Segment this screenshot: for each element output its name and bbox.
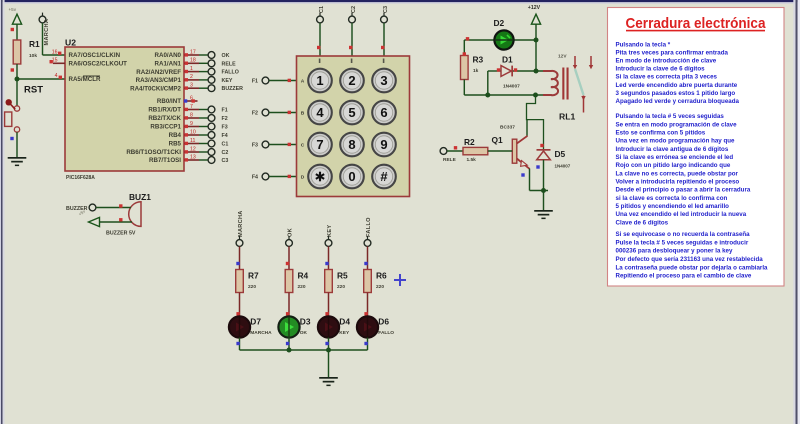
svg-text:RA5/MCLR: RA5/MCLR xyxy=(69,76,101,83)
svg-text:Introducir la clave de 6 dígit: Introducir la clave de 6 dígitos xyxy=(616,66,706,73)
svg-text:000236 para desbloquear y pone: 000236 para desbloquear y poner la key xyxy=(616,248,733,255)
svg-text:8: 8 xyxy=(190,112,193,118)
svg-text:F1: F1 xyxy=(222,108,228,114)
svg-text:F4: F4 xyxy=(252,175,258,181)
svg-text:C3: C3 xyxy=(222,158,229,164)
svg-text:8: 8 xyxy=(348,137,355,152)
svg-text:9: 9 xyxy=(190,121,193,127)
svg-text:La contraseña puede obstar por: La contraseña puede obstar por dejarla o… xyxy=(616,264,769,271)
svg-text:BC337: BC337 xyxy=(500,125,515,131)
svg-text:D5: D5 xyxy=(555,149,566,159)
svg-text:U2: U2 xyxy=(65,38,76,48)
svg-text:5: 5 xyxy=(348,105,355,120)
svg-text:F2: F2 xyxy=(222,116,228,122)
svg-text:17: 17 xyxy=(190,49,196,55)
svg-text:D4: D4 xyxy=(339,317,350,327)
svg-text:FALLO: FALLO xyxy=(378,330,394,336)
svg-text:A: A xyxy=(301,79,305,85)
svg-text:D: D xyxy=(301,175,305,181)
svg-text:La clave no es correcta, puede: La clave no es correcta, puede obstar po… xyxy=(616,170,739,177)
svg-text:RA2/AN2/VREF: RA2/AN2/VREF xyxy=(136,69,181,76)
svg-text:13: 13 xyxy=(190,154,196,160)
svg-text:Apagado led verde y cerradura: Apagado led verde y cerradura bloqueada xyxy=(616,98,740,105)
svg-text:C2: C2 xyxy=(351,6,357,13)
svg-text:7: 7 xyxy=(316,137,323,152)
svg-text:F4: F4 xyxy=(222,133,228,139)
svg-text:+5v: +5v xyxy=(9,7,17,12)
svg-text:Una vez encendido el led intro: Una vez encendido el led introducir la n… xyxy=(616,211,747,218)
svg-text:18: 18 xyxy=(190,58,196,64)
svg-text:10: 10 xyxy=(190,129,196,135)
svg-text:Si la clave es errónea se enci: Si la clave es errónea se enciende el le… xyxy=(616,154,734,161)
svg-text:7: 7 xyxy=(190,104,193,110)
svg-text:RA6/OSC2/CLKOUT: RA6/OSC2/CLKOUT xyxy=(69,60,128,67)
svg-text:Cerradura electrónica: Cerradura electrónica xyxy=(626,16,767,32)
svg-text:R5: R5 xyxy=(337,271,348,281)
svg-text:R7: R7 xyxy=(248,271,259,281)
svg-text:RB1/RX/DT: RB1/RX/DT xyxy=(148,107,181,114)
svg-text:Por defecto que sería 231163 u: Por defecto que sería 231163 una vez res… xyxy=(616,256,764,263)
svg-text:FALLO: FALLO xyxy=(366,217,372,237)
svg-text:OK: OK xyxy=(300,330,308,336)
svg-text:RA7/OSC1/CLKIN: RA7/OSC1/CLKIN xyxy=(69,52,121,59)
svg-text:D2: D2 xyxy=(494,18,505,28)
svg-text:R6: R6 xyxy=(376,271,387,281)
svg-text:si la clave es correcta lo con: si la clave es correcta lo confirma con xyxy=(616,195,728,202)
svg-text:C1: C1 xyxy=(222,142,229,148)
svg-text:Q1: Q1 xyxy=(492,135,504,145)
svg-text:RB4: RB4 xyxy=(169,132,182,139)
svg-text:3 segundos pasados estos 1 pit: 3 segundos pasados estos 1 pitido largo xyxy=(616,90,736,97)
svg-text:1.5k: 1.5k xyxy=(467,157,477,163)
svg-text:220: 220 xyxy=(248,284,256,290)
svg-text:1N4007: 1N4007 xyxy=(555,164,571,169)
svg-text:Led verde encendido abre puert: Led verde encendido abre puerta durante xyxy=(616,82,738,89)
svg-text:KEY: KEY xyxy=(339,330,350,336)
svg-text:9: 9 xyxy=(380,137,387,152)
svg-text:16: 16 xyxy=(52,49,58,55)
svg-text:R3: R3 xyxy=(473,55,484,65)
svg-text:Pulsando la tecla # 5 veces se: Pulsando la tecla # 5 veces seguidas xyxy=(616,113,725,120)
svg-text:C1: C1 xyxy=(319,6,325,13)
svg-text:OK: OK xyxy=(287,228,293,237)
svg-text:Pulsando la tecla *: Pulsando la tecla * xyxy=(616,41,671,48)
svg-text:RA0/AN0: RA0/AN0 xyxy=(155,52,182,59)
svg-text:F3: F3 xyxy=(252,143,258,149)
svg-text:RELE: RELE xyxy=(443,157,457,163)
svg-text:PIC16F628A: PIC16F628A xyxy=(66,175,95,181)
svg-text:0: 0 xyxy=(348,169,355,184)
svg-text:D1: D1 xyxy=(502,55,513,65)
svg-text:6: 6 xyxy=(190,95,193,101)
svg-text:F3: F3 xyxy=(222,125,228,131)
svg-text:RB7/T1OSI: RB7/T1OSI xyxy=(149,157,181,164)
svg-text:2: 2 xyxy=(190,74,193,80)
svg-text:C3: C3 xyxy=(383,6,389,13)
svg-text:10k: 10k xyxy=(29,53,37,59)
svg-text:R2: R2 xyxy=(464,137,475,147)
svg-text:C2: C2 xyxy=(222,150,229,156)
svg-text:Repitiendo el proceso para el: Repitiendo el proceso para el cambio de … xyxy=(616,273,752,280)
svg-text:3: 3 xyxy=(190,83,193,89)
svg-text:RB0/INT: RB0/INT xyxy=(157,98,181,105)
svg-text:Si se equivocase o no recuerda: Si se equivocase o no recuerda la contra… xyxy=(616,231,751,238)
svg-text:RA3/AN3/CMP1: RA3/AN3/CMP1 xyxy=(136,77,182,84)
svg-text:D3: D3 xyxy=(300,317,311,327)
svg-text:KEY: KEY xyxy=(327,225,333,237)
svg-text:1N4007: 1N4007 xyxy=(503,84,520,90)
svg-text:RST: RST xyxy=(24,85,43,96)
svg-text:RA1/AN1: RA1/AN1 xyxy=(155,61,182,68)
svg-text:F2: F2 xyxy=(252,111,258,117)
svg-text:#: # xyxy=(380,169,388,184)
svg-text:Esto se confirma con 5 pitidos: Esto se confirma con 5 pitidos xyxy=(616,129,706,136)
svg-text:2: 2 xyxy=(348,73,355,88)
svg-text:Introducir la clave antigua de: Introducir la clave antigua de 6 dígitos xyxy=(616,146,729,153)
svg-text:4: 4 xyxy=(55,73,58,79)
svg-text:RL1: RL1 xyxy=(559,112,575,122)
svg-text:C: C xyxy=(301,143,305,149)
svg-text:MARCHA: MARCHA xyxy=(250,330,272,336)
svg-text:3: 3 xyxy=(380,73,387,88)
svg-text:Volver a introducirla repitien: Volver a introducirla repitiendo el proc… xyxy=(616,178,740,185)
svg-text:OK: OK xyxy=(222,53,230,59)
svg-text:1k: 1k xyxy=(473,68,479,74)
svg-text:Una vez en modo programación h: Una vez en modo programación hay que xyxy=(616,138,736,145)
svg-text:KEY: KEY xyxy=(222,78,233,84)
svg-text:F1: F1 xyxy=(252,79,258,85)
svg-text:BUZ1: BUZ1 xyxy=(129,192,151,202)
svg-text:FALLO: FALLO xyxy=(222,70,239,76)
svg-text:12V: 12V xyxy=(558,54,567,60)
svg-text:MARCHA: MARCHA xyxy=(44,19,50,46)
svg-text:Desde el principio o pasar a a: Desde el principio o pasar a abrir la ce… xyxy=(616,187,751,194)
svg-text:R1: R1 xyxy=(29,39,40,49)
svg-text:BUZZER: BUZZER xyxy=(222,86,244,92)
svg-text:220: 220 xyxy=(298,284,306,290)
svg-text:4: 4 xyxy=(316,105,324,120)
svg-text:1: 1 xyxy=(190,66,193,72)
svg-text:D7: D7 xyxy=(250,317,261,327)
svg-text:RB6/T1OSO/T1CKI: RB6/T1OSO/T1CKI xyxy=(126,149,181,156)
svg-text:220: 220 xyxy=(376,284,384,290)
svg-text:R4: R4 xyxy=(298,271,309,281)
svg-text:1: 1 xyxy=(316,73,323,88)
svg-text:BUZZER 5V: BUZZER 5V xyxy=(106,231,136,237)
svg-text:RELE: RELE xyxy=(222,61,237,67)
svg-text:RB3/CCP1: RB3/CCP1 xyxy=(150,124,181,131)
svg-text:Se entra en modo programación: Se entra en modo programación de clave xyxy=(616,121,738,128)
svg-text:Pulse la tecla # 5 veces segui: Pulse la tecla # 5 veces seguidas e intr… xyxy=(616,239,749,246)
svg-text:B: B xyxy=(301,111,305,117)
svg-text:5 pitidos y encendiendo el led: 5 pitidos y encendiendo el led amarillo xyxy=(616,203,730,210)
svg-text:Rojo con un pitido largo indic: Rojo con un pitido largo indicando que xyxy=(616,162,731,169)
svg-text:Clave de 6 dígitos: Clave de 6 dígitos xyxy=(616,219,669,226)
svg-text:En modo de introducción de cla: En modo de introducción de clave xyxy=(616,58,717,65)
svg-text:MARCHA: MARCHA xyxy=(238,210,244,237)
svg-text:RB2/TX/CK: RB2/TX/CK xyxy=(148,115,181,122)
svg-text:12: 12 xyxy=(190,146,196,152)
svg-text:+12V: +12V xyxy=(528,5,541,11)
svg-text:RB5: RB5 xyxy=(169,141,182,148)
svg-text:220: 220 xyxy=(337,284,345,290)
svg-text:Pita tres veces para confirmar: Pita tres veces para confirmar entrada xyxy=(616,49,729,56)
svg-text:RA4/T0CKI/CMP2: RA4/T0CKI/CMP2 xyxy=(130,85,181,92)
svg-text:11: 11 xyxy=(190,138,195,144)
svg-text:Si la clave es correcta pita 3: Si la clave es correcta pita 3 veces xyxy=(616,74,718,81)
svg-text:D6: D6 xyxy=(378,317,389,327)
svg-text:6: 6 xyxy=(380,105,387,120)
